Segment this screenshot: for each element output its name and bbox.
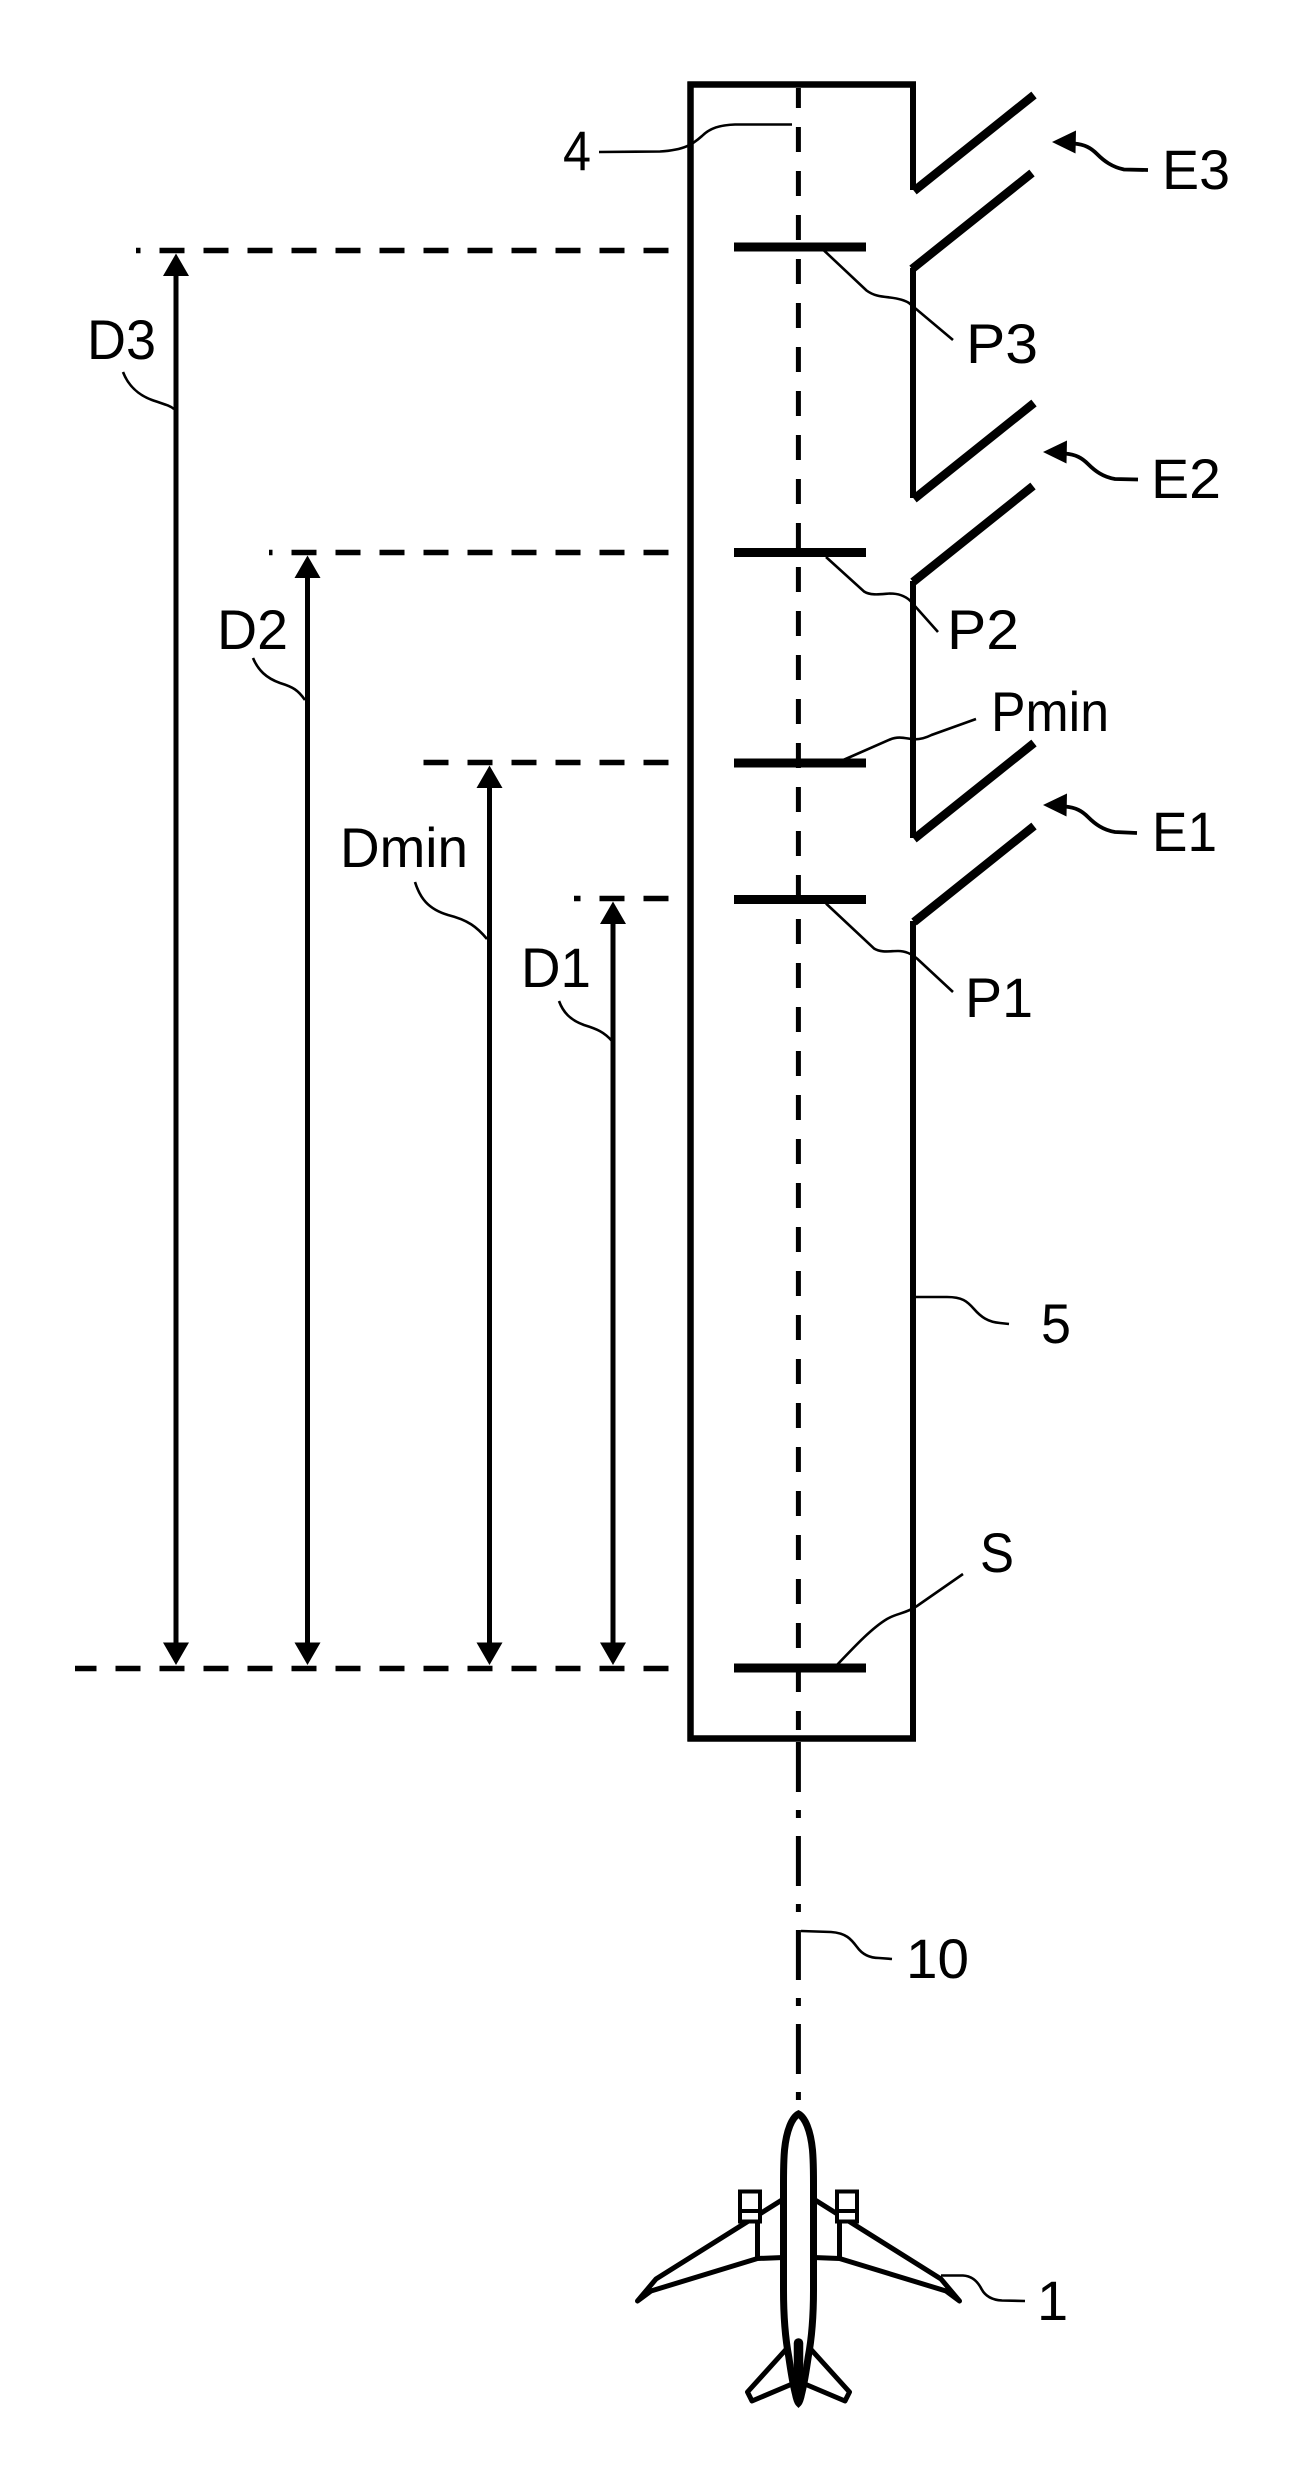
leader for label P1 — [826, 904, 953, 993]
dimension arrow D3 — [163, 254, 189, 1666]
runway 5 right edge segment between E3 and E2 — [910, 268, 916, 498]
dashed level line D3 — [136, 248, 669, 254]
svg-text:5: 5 — [1041, 1292, 1071, 1355]
airplane 1 left horizontal stabilizer — [748, 2345, 795, 2401]
exit E1 upper taxiway edge — [914, 743, 1034, 839]
leader for label Dmin — [415, 882, 487, 939]
leader for label D1 — [559, 1001, 612, 1041]
svg-text:E1: E1 — [1152, 800, 1217, 863]
airplane 1 fuselage — [784, 2114, 814, 2403]
arrow for label E1 — [1043, 794, 1137, 834]
svg-text:D2: D2 — [217, 598, 288, 661]
label E1 — [1152, 800, 1217, 863]
label S — [980, 1521, 1014, 1584]
arrow for label E3 — [1052, 131, 1148, 171]
svg-text:E2: E2 — [1151, 447, 1221, 510]
arrow for label E2 — [1043, 441, 1138, 480]
dimension arrow Dmin — [477, 766, 503, 1666]
airplane 1 right horizontal stabilizer — [803, 2345, 850, 2401]
tick mark Pmin — [734, 759, 866, 768]
dashed level line D2 — [269, 550, 669, 556]
leader for label S — [836, 1574, 963, 1666]
runway 5 right edge segment between E2 and E1 — [910, 581, 916, 838]
dashed level line Dmin — [424, 760, 669, 766]
leader for label D2 — [253, 658, 305, 700]
tick mark P3 — [734, 243, 866, 252]
airplane 1 right wing — [814, 2199, 960, 2301]
airplane 1 left engine — [740, 2192, 760, 2222]
runway 5 top edge — [688, 81, 917, 88]
leader for label 10 — [801, 1931, 892, 1959]
label E3 — [1162, 138, 1230, 201]
label Dmin — [340, 816, 468, 879]
runway centerline 4 (dashed) — [796, 88, 801, 1730]
svg-text:E3: E3 — [1162, 138, 1230, 201]
leader for label 1 — [941, 2276, 1025, 2302]
airplane 1 left wing — [638, 2199, 784, 2301]
leader for label Pmin — [841, 719, 976, 761]
tick mark S — [734, 1664, 866, 1673]
label Pmin — [991, 680, 1109, 743]
exit E1 lower taxiway edge — [914, 826, 1034, 922]
svg-text:P3: P3 — [966, 312, 1038, 375]
airplane 1 vertical fin — [794, 2343, 804, 2399]
tick mark P1 — [734, 895, 866, 904]
svg-text:4: 4 — [563, 119, 591, 182]
leader for label 4 — [599, 125, 792, 153]
label 5 — [1041, 1292, 1071, 1355]
svg-text:Pmin: Pmin — [991, 680, 1109, 743]
label 10 — [906, 1927, 969, 1990]
leader for label D3 — [123, 372, 174, 409]
exit E3 lower taxiway edge — [912, 173, 1032, 269]
label D1 — [521, 936, 591, 999]
label P1 — [965, 966, 1033, 1029]
label 1 — [1037, 2269, 1068, 2332]
runway 5 bottom edge — [688, 1735, 917, 1742]
extended centerline 10 (dash-dot) — [796, 1742, 801, 2102]
runway 5 right edge segment below E1 — [910, 921, 916, 1742]
svg-text:10: 10 — [906, 1927, 969, 1990]
leader for label P3 — [824, 251, 953, 341]
label E2 — [1151, 447, 1221, 510]
dashed threshold line at S — [75, 1666, 669, 1672]
label D3 — [87, 308, 156, 371]
svg-text:Dmin: Dmin — [340, 816, 468, 879]
dimension arrow D1 — [600, 902, 626, 1666]
leader for label P2 — [826, 557, 938, 632]
dashed level line D1 — [574, 896, 669, 902]
runway 5 right edge segment above exit E3 — [910, 82, 916, 191]
svg-text:D3: D3 — [87, 308, 156, 371]
leader for label 5 — [915, 1297, 1009, 1324]
label D2 — [217, 598, 288, 661]
runway 5 left edge — [687, 82, 694, 1742]
label 4 — [563, 119, 591, 182]
exit E2 lower taxiway edge — [913, 486, 1033, 582]
airplane 1 right engine — [837, 2192, 857, 2222]
label P2 — [947, 598, 1019, 661]
label P3 — [966, 312, 1038, 375]
dimension arrow D2 — [295, 556, 321, 1666]
exit E3 upper taxiway edge — [914, 95, 1034, 191]
svg-text:S: S — [980, 1521, 1014, 1584]
tick mark P2 — [734, 548, 866, 557]
svg-text:P1: P1 — [965, 966, 1033, 1029]
exit E2 upper taxiway edge — [914, 403, 1034, 499]
svg-text:1: 1 — [1037, 2269, 1068, 2332]
svg-text:D1: D1 — [521, 936, 591, 999]
svg-text:P2: P2 — [947, 598, 1019, 661]
